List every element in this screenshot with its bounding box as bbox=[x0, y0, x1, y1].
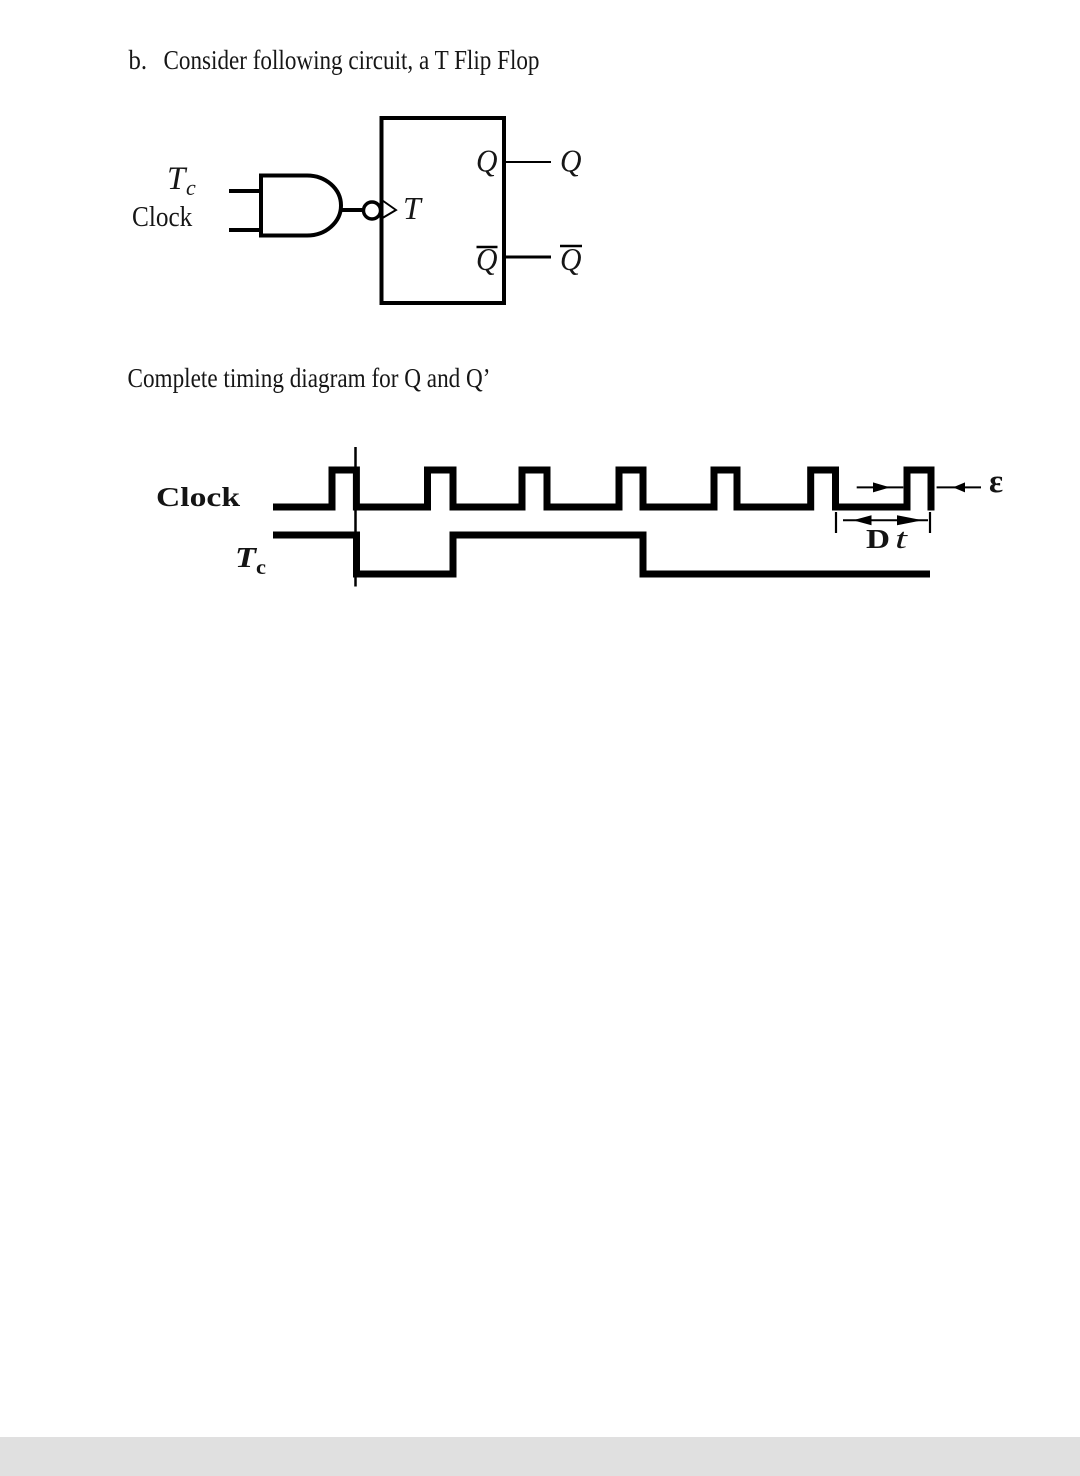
dimension tick right bbox=[929, 512, 931, 533]
svg-text:T: T bbox=[235, 543, 258, 574]
wire Qbar output bbox=[504, 256, 551, 259]
svg-text:Consider following circuit, a: Consider following circuit, a T Flip Flo… bbox=[164, 45, 540, 75]
wire Clock input bbox=[229, 228, 261, 232]
svg-text:ε: ε bbox=[989, 464, 1003, 500]
svg-text:T: T bbox=[167, 161, 188, 197]
footer gray bar bbox=[0, 1437, 1080, 1476]
svg-text:Clock: Clock bbox=[156, 482, 240, 512]
label Dt bbox=[866, 524, 909, 555]
wire Q output bbox=[504, 161, 551, 163]
arrow left toward last pulse bbox=[937, 482, 981, 492]
wire gate output bbox=[340, 208, 364, 212]
svg-text:Clock: Clock bbox=[132, 202, 192, 233]
title text b. Consider following circuit, a T Flip Flop bbox=[129, 45, 540, 75]
clock waveform bbox=[273, 470, 931, 511]
label Tc (gate input) bbox=[167, 161, 196, 200]
nand gate U1 body bbox=[261, 176, 341, 236]
arrow right toward last pulse bbox=[857, 482, 904, 492]
svg-text:Complete timing diagram for Q: Complete timing diagram for Q and Q’ bbox=[128, 363, 491, 393]
pin label Qbar bbox=[476, 241, 498, 277]
svg-text:D: D bbox=[866, 524, 890, 554]
svg-text:T: T bbox=[403, 190, 423, 226]
flip-flop box U2 bbox=[382, 118, 505, 303]
label Tc (timing) bbox=[235, 543, 266, 579]
svg-text:Q: Q bbox=[476, 143, 498, 179]
svg-text:Q: Q bbox=[560, 143, 582, 179]
node label Qbar external bbox=[560, 241, 582, 277]
svg-text:b.: b. bbox=[129, 45, 148, 75]
wire Tc input bbox=[229, 189, 261, 193]
Tc waveform bbox=[273, 535, 930, 574]
inverter bubble bbox=[364, 202, 381, 219]
marker line at first pulse bbox=[354, 447, 357, 587]
svg-text:c: c bbox=[256, 557, 266, 579]
dimension tick left bbox=[835, 512, 837, 533]
svg-text:t: t bbox=[895, 524, 909, 555]
svg-text:c: c bbox=[186, 175, 196, 200]
clock edge triangle bbox=[383, 201, 397, 219]
dimension double arrow Dt bbox=[843, 515, 928, 525]
